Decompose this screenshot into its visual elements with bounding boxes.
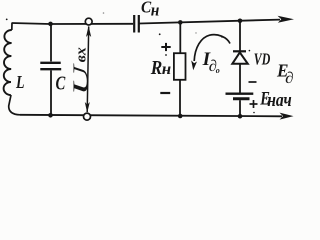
svg-text:L: L xyxy=(15,72,24,92)
svg-text:∂: ∂ xyxy=(285,70,294,87)
svg-text:o: o xyxy=(216,66,220,75)
svg-text:VD: VD xyxy=(254,50,270,69)
svg-text:U: U xyxy=(68,62,93,96)
svg-text:н: н xyxy=(162,61,172,78)
svg-text:R: R xyxy=(150,57,162,79)
svg-text:н: н xyxy=(151,1,160,20)
svg-text:нач: нач xyxy=(267,90,292,111)
svg-text:C: C xyxy=(56,73,66,95)
svg-text:вх: вх xyxy=(74,47,90,63)
